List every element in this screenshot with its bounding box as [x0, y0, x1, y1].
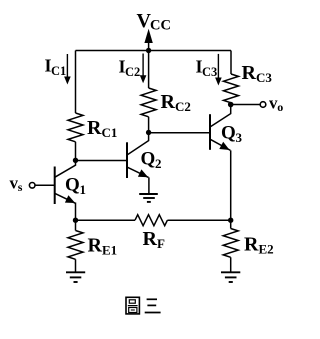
wire RF to node E2 — [167, 219, 230, 221]
svg-text:1: 1 — [80, 182, 87, 197]
wire node C to vo terminal — [231, 104, 261, 106]
svg-text:C2: C2 — [175, 99, 191, 114]
transistor Q2 — [127, 133, 149, 194]
resistor RC3 — [224, 74, 239, 103]
ground under RE2 — [221, 272, 240, 282]
node B — [146, 130, 151, 135]
svg-text:R: R — [161, 91, 176, 113]
svg-text:s: s — [18, 180, 23, 194]
node E1 — [73, 218, 78, 223]
current arrow IC1 — [64, 54, 71, 85]
node E2 — [228, 218, 233, 223]
label vo — [269, 94, 283, 115]
svg-text:R: R — [88, 235, 103, 257]
svg-text:Q: Q — [221, 123, 236, 144]
resistor RC2 — [141, 88, 156, 117]
label Q2 — [141, 149, 162, 172]
svg-text:E2: E2 — [259, 242, 274, 257]
wire Q3 emitter down to node E2 — [230, 150, 232, 220]
圖 inner top small box — [129, 300, 135, 303]
圖 outer box — [126, 297, 139, 314]
wire node B to Q3 base — [149, 132, 210, 134]
svg-text:R: R — [244, 234, 259, 256]
resistor RE2 — [223, 220, 238, 272]
node VCC junction — [146, 48, 151, 53]
wire RC1 bottom to node A — [75, 142, 77, 161]
resistor RC1 — [68, 113, 83, 142]
terminal vs — [29, 183, 54, 189]
label IC3 — [196, 57, 218, 80]
圖 middle horizontal — [128, 305, 138, 307]
power VCC — [137, 10, 171, 51]
三 bottom stroke — [145, 312, 161, 314]
transistor Q1 — [55, 161, 76, 205]
svg-text:3: 3 — [236, 130, 243, 145]
current arrow IC3 — [215, 54, 222, 86]
svg-text:R: R — [143, 228, 158, 250]
label vs — [10, 174, 23, 195]
wire RC2 bottom to node B — [148, 117, 150, 133]
wire top rail — [76, 50, 232, 52]
node A — [73, 158, 78, 163]
resistor RE1 — [68, 220, 83, 272]
label RF — [143, 228, 166, 251]
transistor Q3 — [210, 105, 231, 151]
svg-text:C1: C1 — [51, 64, 66, 78]
current arrow IC2 — [140, 54, 147, 84]
wire node A to Q2 base — [76, 160, 128, 162]
wire middle branch vertical — [148, 51, 150, 89]
label RC3 — [242, 62, 273, 85]
label Q3 — [221, 123, 243, 146]
label RE2 — [244, 234, 274, 257]
svg-text:CC: CC — [150, 18, 171, 34]
label RE1 — [88, 235, 118, 258]
svg-text:Q: Q — [65, 175, 80, 196]
wire Q1 emitter down to node E1 — [75, 203, 77, 221]
wire node E1 to RF — [76, 219, 136, 221]
ground under Q2 emitter — [139, 194, 158, 202]
svg-text:C1: C1 — [102, 125, 118, 140]
label RC1 — [87, 117, 117, 140]
ground under RE1 — [66, 272, 85, 282]
wire right branch vertical — [230, 51, 232, 75]
三 top stroke — [147, 298, 157, 300]
label IC2 — [119, 57, 141, 80]
label IC1 — [45, 56, 67, 79]
terminal vo — [260, 102, 266, 108]
svg-text:C3: C3 — [202, 65, 217, 79]
svg-text:R: R — [87, 117, 102, 139]
圖 lower inner tick — [131, 309, 135, 311]
svg-text:E1: E1 — [102, 243, 117, 258]
svg-text:F: F — [157, 236, 165, 251]
svg-text:2: 2 — [155, 156, 162, 171]
svg-text:C3: C3 — [256, 70, 272, 85]
caption 圖三 (Figure 3) drawn as strokes — [126, 297, 161, 314]
resistor RF — [135, 215, 167, 226]
wire left branch vertical — [75, 51, 77, 114]
svg-text:R: R — [242, 62, 257, 84]
svg-text:o: o — [277, 100, 283, 114]
svg-text:C2: C2 — [125, 65, 140, 79]
label Q1 — [65, 175, 86, 198]
node C (vo node) — [228, 102, 234, 108]
svg-text:Q: Q — [141, 149, 156, 170]
圖 lower box — [129, 308, 137, 313]
三 middle stroke — [147, 304, 156, 306]
label RC2 — [161, 91, 191, 114]
